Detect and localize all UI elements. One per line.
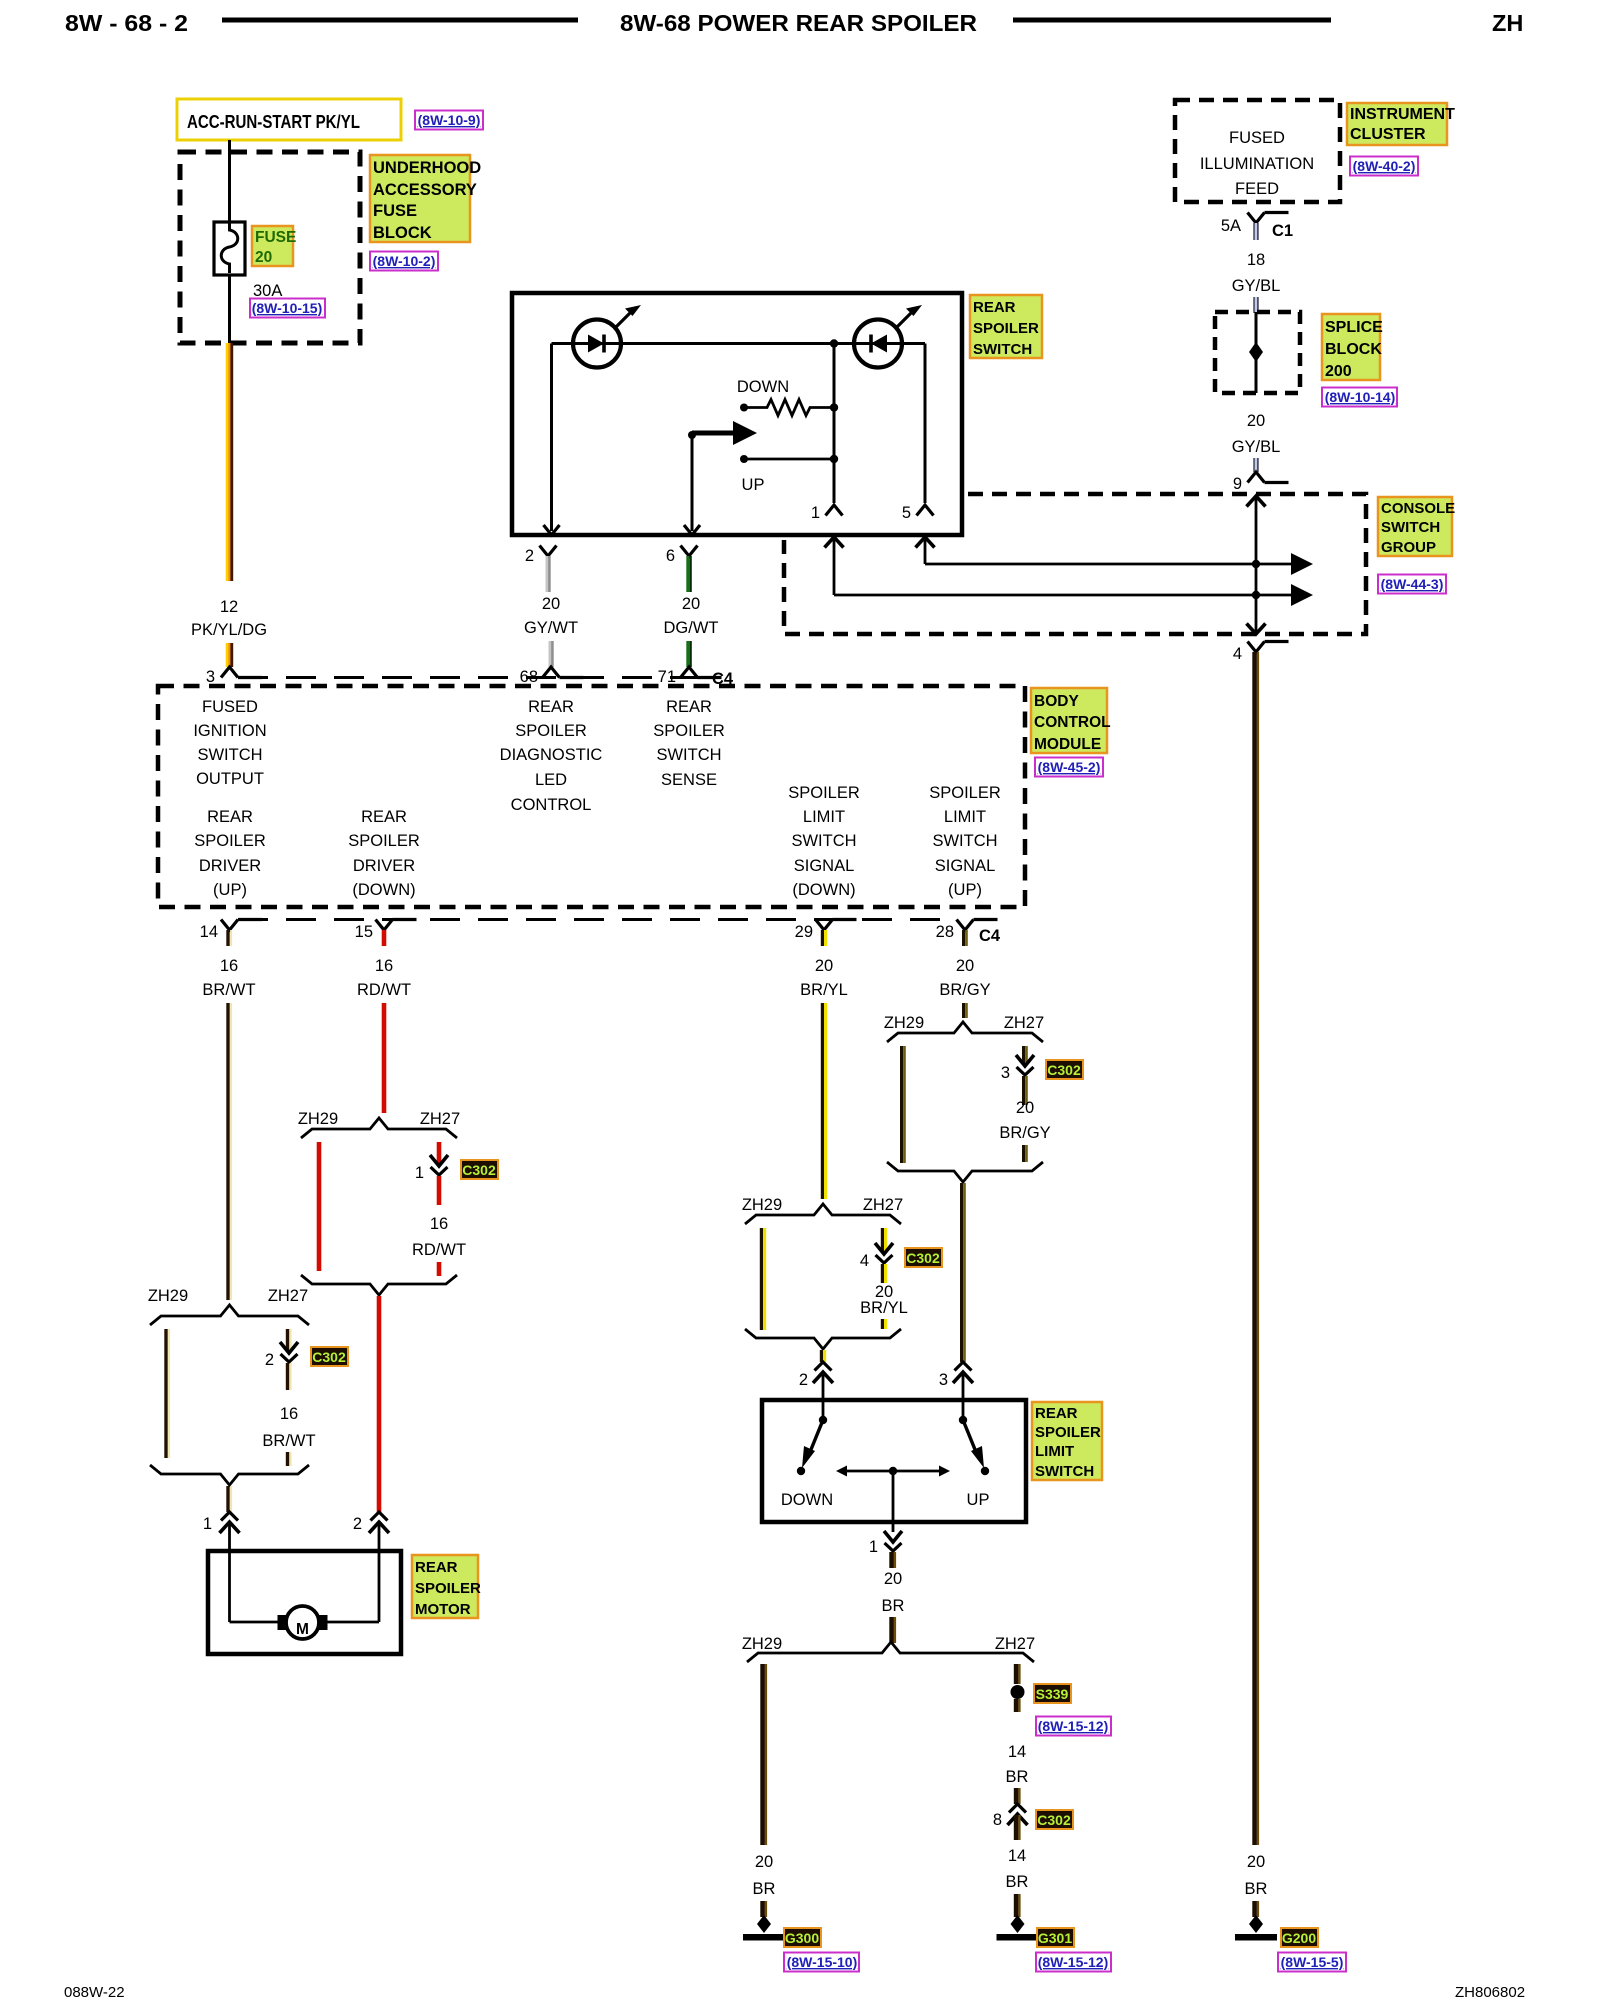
svg-text:BR/YL: BR/YL: [800, 981, 848, 999]
link 8W-15-5: [1278, 1953, 1346, 1972]
svg-text:DG/WT: DG/WT: [664, 619, 719, 637]
svg-text:BR/GY: BR/GY: [939, 981, 990, 999]
svg-text:C302: C302: [1047, 1062, 1081, 1078]
BCM limit switch signal up text: [929, 784, 1001, 899]
wire 16 BR/WT main: [228, 1003, 231, 1300]
label 20 BR/GY: [939, 957, 990, 999]
svg-text:GROUP: GROUP: [1381, 539, 1436, 556]
page header right ZH: [1492, 10, 1523, 36]
limit switch UP contact: [959, 1400, 990, 1509]
label body control module: [1031, 688, 1111, 753]
instrument cluster box: [1175, 100, 1340, 202]
svg-text:1: 1: [203, 1515, 212, 1533]
label 20 BR/YL: [800, 957, 848, 999]
splice S339: [1011, 1685, 1025, 1699]
footer sheet number: [64, 1984, 125, 2000]
svg-text:30A: 30A: [253, 282, 282, 300]
svg-text:S339: S339: [1036, 1686, 1069, 1702]
BCM driver down text: [348, 808, 420, 899]
svg-text:2: 2: [799, 1371, 808, 1389]
svg-text:SPOILER: SPOILER: [194, 832, 266, 850]
pin 29 fork: [795, 920, 857, 947]
label G300: [784, 1928, 821, 1947]
label 20 BR at G300: [753, 1853, 776, 1917]
label 16 BR/WT below C302: [262, 1363, 315, 1466]
svg-text:UNDERHOOD: UNDERHOOD: [373, 159, 481, 177]
svg-text:ZH27: ZH27: [1004, 1014, 1044, 1032]
svg-text:C302: C302: [906, 1250, 940, 1266]
label 16 BR/WT: [202, 957, 255, 999]
svg-text:SIGNAL: SIGNAL: [794, 857, 855, 875]
svg-text:C302: C302: [312, 1349, 346, 1365]
svg-text:BR: BR: [1006, 1768, 1029, 1786]
svg-text:(8W-10-15): (8W-10-15): [252, 300, 323, 316]
console illumination feed wire: [1247, 496, 1266, 634]
svg-text:FUSE: FUSE: [255, 229, 296, 246]
svg-text:16: 16: [220, 957, 238, 975]
svg-text:BLOCK: BLOCK: [1325, 341, 1382, 358]
label C302 bryl: [905, 1248, 942, 1267]
svg-text:3: 3: [206, 668, 215, 686]
wire from ACC feed into fuse block: [228, 140, 231, 222]
svg-text:SPOILER: SPOILER: [973, 320, 1039, 337]
label G200: [1281, 1928, 1318, 1947]
BCM pin 3 function text: [193, 698, 266, 788]
svg-text:BR: BR: [753, 1880, 776, 1898]
harness transition ZH29/ZH27 for BR/GY: [884, 1014, 1044, 1042]
BCM diagnostic LED text: [500, 698, 603, 814]
svg-text:BR: BR: [1245, 1880, 1268, 1898]
svg-text:20: 20: [956, 957, 974, 975]
wire BR/GY ZH29 branch: [902, 1046, 905, 1163]
svg-text:28: 28: [936, 923, 954, 941]
svg-text:FEED: FEED: [1235, 180, 1279, 198]
svg-text:12: 12: [220, 598, 238, 616]
svg-text:29: 29: [795, 923, 813, 941]
label S339: [1034, 1684, 1071, 1703]
switch wiper arrow: [684, 421, 757, 535]
connector C302 pin 2: [265, 1342, 298, 1369]
svg-text:1: 1: [869, 1538, 878, 1556]
wire 20 BR console to G200: [1255, 652, 1258, 1845]
svg-text:REAR: REAR: [528, 698, 574, 716]
ground G300: [743, 1915, 785, 1941]
footer drawing number: [1455, 1984, 1525, 2000]
svg-text:2: 2: [265, 1351, 274, 1369]
svg-text:SWITCH: SWITCH: [1381, 519, 1440, 536]
svg-text:REAR: REAR: [361, 808, 407, 826]
fuse 20 label: [252, 226, 296, 266]
svg-text:RD/WT: RD/WT: [412, 1241, 466, 1259]
wire 14 BR to G301: [1006, 1815, 1029, 1917]
svg-text:(8W-15-12): (8W-15-12): [1038, 1954, 1109, 1970]
pin 5 fork: [902, 504, 934, 522]
rear spoiler limit switch box: [762, 1400, 1026, 1522]
svg-text:DRIVER: DRIVER: [353, 857, 415, 875]
motor pin 2 connector: [353, 1512, 389, 1551]
wire common leg pin 1: [833, 344, 836, 504]
svg-text:G301: G301: [1038, 1930, 1072, 1946]
node fused illumination feed: [1200, 129, 1314, 198]
svg-text:C1: C1: [1272, 222, 1293, 240]
svg-text:1: 1: [811, 504, 820, 522]
svg-text:BR/GY: BR/GY: [999, 1124, 1050, 1142]
indicator LED left: [573, 305, 641, 368]
svg-text:GY/WT: GY/WT: [524, 619, 578, 637]
splice wire and junction: [1249, 312, 1263, 393]
ground G301: [997, 1915, 1039, 1941]
svg-text:ZH29: ZH29: [742, 1635, 782, 1653]
svg-text:DRIVER: DRIVER: [199, 857, 261, 875]
wire BR ZH29 branch to G300: [763, 1664, 766, 1845]
connector C302 pin 1: [415, 1155, 448, 1182]
pin 14 fork: [200, 920, 262, 947]
svg-text:(UP): (UP): [948, 881, 982, 899]
svg-text:SWITCH: SWITCH: [932, 832, 997, 850]
svg-text:UP: UP: [967, 1491, 990, 1509]
wire RD/WT ZH29 branch: [317, 1142, 322, 1271]
pin 28 fork: [936, 920, 1001, 947]
connector C302 pin 3: [1001, 1055, 1034, 1082]
svg-text:BODY: BODY: [1034, 693, 1079, 710]
svg-text:G200: G200: [1282, 1930, 1316, 1946]
label splice block 200: [1322, 314, 1383, 380]
svg-text:20: 20: [755, 1853, 773, 1871]
label 12 PK/YL/DG: [191, 598, 267, 639]
connector C4 bar at BCM top: [238, 676, 701, 679]
svg-text:(8W-15-10): (8W-15-10): [787, 1954, 858, 1970]
fuse rating 30A: [253, 282, 282, 300]
svg-text:SIGNAL: SIGNAL: [935, 857, 996, 875]
pin 1 fork: [811, 504, 843, 522]
wire BR/WT ZH29 branch: [166, 1329, 169, 1458]
svg-text:MOTOR: MOTOR: [415, 1601, 471, 1618]
svg-text:8W - 68 - 2: 8W - 68 - 2: [65, 10, 188, 36]
connector C1: [1221, 213, 1293, 241]
label rear spoiler switch: [970, 295, 1042, 358]
wire 20 GY/WT: [524, 556, 578, 667]
label 20 BR below limit switch: [882, 1570, 905, 1643]
svg-text:BR/YL: BR/YL: [860, 1299, 908, 1317]
label C302: [311, 1347, 348, 1366]
console wire from switch pin 5: [925, 553, 1313, 575]
svg-text:ZH29: ZH29: [148, 1287, 188, 1305]
svg-text:(8W-10-2): (8W-10-2): [373, 253, 436, 269]
svg-text:ZH29: ZH29: [742, 1196, 782, 1214]
svg-text:C4: C4: [979, 927, 1001, 945]
svg-text:FUSE: FUSE: [373, 202, 417, 220]
wire right leg pin 5: [924, 344, 927, 504]
svg-text:SENSE: SENSE: [661, 771, 717, 789]
svg-text:ZH27: ZH27: [420, 1110, 460, 1128]
svg-text:2: 2: [353, 1515, 362, 1533]
BCM driver up text: [194, 808, 266, 899]
svg-text:ZH27: ZH27: [268, 1287, 308, 1305]
wire BR/YL ZH29 branch: [761, 1228, 764, 1330]
wire 20 DG/WT: [664, 556, 719, 667]
svg-text:16: 16: [430, 1215, 448, 1233]
svg-text:SPOILER: SPOILER: [415, 1580, 481, 1597]
svg-text:C302: C302: [1037, 1812, 1071, 1828]
svg-text:REAR: REAR: [666, 698, 712, 716]
svg-text:SWITCH: SWITCH: [1035, 1463, 1094, 1480]
link 8W-15-12 upper: [1036, 1717, 1111, 1736]
BCM switch sense text: [653, 698, 725, 789]
connector C302 pin 8: [993, 1804, 1028, 1829]
page header center title: [620, 10, 977, 36]
wire BR/WT to motor: [228, 1486, 231, 1512]
wire RD/WT ZH27 stub: [437, 1142, 442, 1164]
svg-text:BR/WT: BR/WT: [262, 1432, 315, 1450]
svg-text:ZH806802: ZH806802: [1455, 1984, 1525, 2000]
link 8W-45-2: [1035, 758, 1103, 777]
svg-text:ACCESSORY: ACCESSORY: [373, 181, 477, 199]
svg-text:088W-22: 088W-22: [64, 1984, 125, 2000]
svg-text:ZH29: ZH29: [298, 1110, 338, 1128]
label C302 brgy: [1046, 1060, 1083, 1079]
svg-text:REAR: REAR: [207, 808, 253, 826]
svg-text:SWITCH: SWITCH: [973, 341, 1032, 358]
connector C302 pin 4: [860, 1243, 893, 1270]
wire 20 GY/BL below splice: [1232, 412, 1281, 472]
link 8W-40-2: [1350, 157, 1418, 176]
label 20 BR/GY below C302: [999, 1076, 1050, 1162]
wire 20 BR/YL main: [822, 1003, 825, 1199]
harness transition ZH29/ZH27 for BR/WT: [148, 1287, 309, 1325]
limit switch pin 1 connector: [869, 1531, 902, 1568]
wire switch top rail: [552, 342, 926, 345]
pin 71 connector at BCM: [658, 667, 734, 688]
svg-text:FUSED: FUSED: [202, 698, 258, 716]
wire BR/GY to limit switch: [962, 1183, 965, 1362]
svg-text:ZH29: ZH29: [884, 1014, 924, 1032]
svg-text:SPOILER: SPOILER: [929, 784, 1001, 802]
fuse F20: [214, 222, 245, 275]
label 20 BR/YL below C302: [860, 1264, 908, 1329]
svg-text:DIAGNOSTIC: DIAGNOSTIC: [500, 746, 603, 764]
svg-text:20: 20: [1247, 1853, 1265, 1871]
wire console to switch pin 5: [916, 537, 935, 564]
link 8W-44-3: [1378, 575, 1446, 594]
svg-text:5A: 5A: [1221, 217, 1241, 235]
pin 6 fork below switch: [666, 546, 698, 566]
header rule left: [222, 18, 578, 23]
link 8W-15-10: [784, 1953, 859, 1972]
svg-text:SPOILER: SPOILER: [653, 722, 725, 740]
link 8W-10-2: [370, 252, 438, 271]
svg-text:LED: LED: [535, 771, 567, 789]
label rear spoiler motor: [412, 1555, 481, 1618]
wire 20 BR/GY stub: [964, 1003, 967, 1018]
svg-text:2: 2: [525, 547, 534, 565]
limit switch pin 2 connector: [799, 1362, 833, 1400]
limit switch pin 3 connector: [939, 1362, 973, 1400]
wire LED left leg down: [544, 344, 560, 536]
svg-text:20: 20: [255, 249, 272, 266]
svg-text:20: 20: [815, 957, 833, 975]
svg-text:14: 14: [200, 923, 218, 941]
svg-text:SPOILER: SPOILER: [788, 784, 860, 802]
svg-text:(8W-40-2): (8W-40-2): [1353, 158, 1416, 174]
label 16 RD/WT below C302: [412, 1176, 466, 1276]
body control module outline: [158, 686, 1025, 907]
svg-text:4: 4: [860, 1252, 869, 1270]
svg-text:9: 9: [1233, 475, 1242, 493]
pin 9 connector at console: [1233, 472, 1289, 493]
node ACC-RUN-START PK/YL feed: [177, 99, 401, 140]
svg-text:16: 16: [375, 957, 393, 975]
underhood accessory fuse block outline: [180, 152, 360, 343]
svg-text:C302: C302: [462, 1162, 496, 1178]
harness bottom bracket BR/GY: [887, 1162, 1043, 1182]
pin 2 fork below switch: [525, 546, 557, 566]
link 8W-10-9: [415, 111, 483, 130]
label 16 RD/WT: [357, 957, 411, 999]
motor pin 1 connector: [203, 1512, 240, 1551]
svg-text:LIMIT: LIMIT: [944, 808, 986, 826]
harness transition ZH29/ZH27 for RD/WT: [298, 1110, 460, 1138]
resistor DOWN contact: [737, 378, 838, 416]
svg-text:INSTRUMENT: INSTRUMENT: [1350, 106, 1455, 123]
svg-text:M: M: [296, 1621, 309, 1638]
svg-text:SWITCH: SWITCH: [791, 832, 856, 850]
wire 14 BR to C302: [1006, 1699, 1029, 1804]
BCM limit switch signal down text: [788, 784, 860, 899]
svg-text:SPOILER: SPOILER: [348, 832, 420, 850]
label underhood accessory fuse block: [370, 155, 481, 242]
wire 18 GY/BL: [1232, 251, 1281, 313]
svg-text:20: 20: [682, 595, 700, 613]
svg-text:8: 8: [993, 1811, 1002, 1829]
label 20 BR at G200: [1245, 1853, 1268, 1917]
svg-text:18: 18: [1247, 251, 1265, 269]
svg-text:REAR: REAR: [973, 299, 1016, 316]
rear spoiler motor box: [208, 1551, 401, 1654]
harness bottom bracket RD/WT: [301, 1275, 457, 1295]
harness bottom bracket BR/YL: [745, 1329, 901, 1349]
wire 12 PK/YL/DG: [227, 343, 232, 581]
svg-text:OUTPUT: OUTPUT: [196, 770, 264, 788]
svg-text:20: 20: [884, 1570, 902, 1588]
svg-text:PK/YL/DG: PK/YL/DG: [191, 621, 267, 639]
svg-text:SWITCH: SWITCH: [197, 746, 262, 764]
svg-text:3: 3: [939, 1371, 948, 1389]
wire BR ZH27 stub to S339: [1016, 1664, 1019, 1684]
svg-text:UP: UP: [742, 476, 765, 494]
pin 4 fork below console: [1233, 642, 1289, 664]
pin 68 connector at BCM: [520, 667, 584, 686]
svg-text:20: 20: [1247, 412, 1265, 430]
svg-text:CONSOLE: CONSOLE: [1381, 500, 1455, 517]
indicator LED right: [854, 305, 922, 368]
limit switch common bar: [836, 1466, 950, 1533]
label G301: [1037, 1928, 1074, 1947]
pin 3 connector at BCM: [206, 667, 262, 686]
link 8W-10-14: [1322, 388, 1397, 407]
svg-text:1: 1: [415, 1164, 424, 1182]
switch UP contact: [740, 455, 838, 494]
page header left title: [65, 10, 188, 36]
svg-text:REAR: REAR: [1035, 1405, 1078, 1422]
connector C4 bar at BCM bottom: [238, 918, 956, 921]
svg-text:GY/BL: GY/BL: [1232, 438, 1281, 456]
wire console to switch pin 1: [825, 537, 844, 595]
label instrument cluster: [1347, 103, 1455, 145]
wire BR/GY ZH27 stub: [1024, 1046, 1027, 1064]
svg-text:BLOCK: BLOCK: [373, 224, 432, 242]
svg-text:SPLICE: SPLICE: [1325, 319, 1383, 336]
svg-text:200: 200: [1325, 363, 1352, 380]
svg-text:BR: BR: [882, 1597, 905, 1615]
motor M1: [230, 1551, 380, 1639]
svg-text:BR: BR: [1006, 1873, 1029, 1891]
wire RD/WT to motor: [377, 1296, 382, 1512]
wire 16 RD/WT main: [382, 1003, 387, 1113]
svg-text:5: 5: [902, 504, 911, 522]
svg-text:DOWN: DOWN: [781, 1491, 833, 1509]
splice block outline: [1215, 312, 1300, 393]
svg-text:LIMIT: LIMIT: [1035, 1443, 1074, 1460]
svg-text:ZH27: ZH27: [863, 1196, 903, 1214]
svg-text:DOWN: DOWN: [737, 378, 789, 396]
svg-text:RD/WT: RD/WT: [357, 981, 411, 999]
svg-text:(8W-10-9): (8W-10-9): [418, 112, 481, 128]
svg-text:(8W-15-5): (8W-15-5): [1281, 1954, 1344, 1970]
svg-text:14: 14: [1008, 1847, 1026, 1865]
svg-text:ACC-RUN-START PK/YL: ACC-RUN-START PK/YL: [187, 111, 360, 132]
svg-text:14: 14: [1008, 1743, 1026, 1761]
svg-text:(8W-15-12): (8W-15-12): [1038, 1718, 1109, 1734]
svg-text:(DOWN): (DOWN): [352, 881, 415, 899]
pin 15 fork: [355, 920, 417, 947]
wire BR/YL ZH27 stub: [882, 1228, 885, 1252]
svg-text:SPOILER: SPOILER: [515, 722, 587, 740]
svg-text:IGNITION: IGNITION: [193, 722, 266, 740]
console switch group outline: [784, 494, 1366, 634]
header rule right: [1013, 18, 1331, 23]
svg-text:ZH27: ZH27: [995, 1635, 1035, 1653]
svg-text:3: 3: [1001, 1064, 1010, 1082]
harness bottom bracket BR/WT: [150, 1465, 309, 1485]
rear spoiler switch box: [512, 293, 962, 535]
wire below fuse inside block: [228, 275, 231, 343]
svg-text:4: 4: [1233, 645, 1242, 663]
svg-text:FUSED: FUSED: [1229, 129, 1285, 147]
svg-text:REAR: REAR: [415, 1559, 458, 1576]
link 8W-10-15: [250, 299, 325, 318]
svg-text:G300: G300: [785, 1930, 819, 1946]
link 8W-15-12 lower: [1036, 1953, 1111, 1972]
svg-text:20: 20: [542, 595, 560, 613]
wire stub above BCM pin 3: [227, 643, 232, 667]
svg-text:(8W-44-3): (8W-44-3): [1381, 576, 1444, 592]
console wire from switch pin 1: [834, 584, 1313, 606]
label rear spoiler limit switch: [1032, 1402, 1102, 1480]
svg-text:20: 20: [1016, 1099, 1034, 1117]
wire BR/WT ZH27 stub: [288, 1329, 291, 1351]
harness transition ZH29/ZH27 for BR: [742, 1635, 1035, 1662]
svg-text:8W-68 POWER REAR SPOILER: 8W-68 POWER REAR SPOILER: [620, 10, 977, 36]
wire BR/YL to limit switch: [821, 1350, 824, 1362]
svg-text:(UP): (UP): [213, 881, 247, 899]
svg-text:BR/WT: BR/WT: [202, 981, 255, 999]
harness transition ZH29/ZH27 for BR/YL: [742, 1196, 903, 1224]
ground G200: [1235, 1915, 1277, 1941]
svg-text:(8W-10-14): (8W-10-14): [1325, 389, 1396, 405]
svg-text:15: 15: [355, 923, 373, 941]
svg-text:ILLUMINATION: ILLUMINATION: [1200, 155, 1314, 173]
svg-text:CONTROL: CONTROL: [511, 796, 592, 814]
